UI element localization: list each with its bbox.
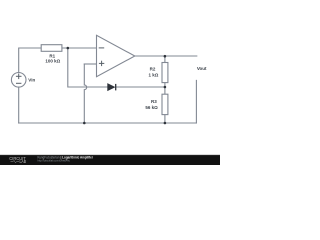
svg-text:Vout: Vout [197,66,207,71]
wire: source top to R1 left [19,48,42,73]
wire: source bottom to rail [18,87,20,123]
resistor R3 body [162,94,168,114]
footer bar [0,155,220,165]
node B junction dot (diode/R2/R3) [164,86,167,89]
voltage source V1 [11,73,26,88]
wire: op-amp non-inverting input [84,63,96,65]
svg-text:R2: R2 [150,66,156,71]
svg-text:Vin: Vin [28,77,35,82]
wire: diode cathode to node B [116,86,165,88]
op-amp plus input symbol [99,61,104,66]
op-amp U1 [97,35,135,76]
node A junction dot [67,47,70,50]
wire: output node down to R2 top [164,56,166,63]
wire: op-amp output to Vout [135,55,197,57]
svg-text:http://circuitlab.com/c/bw64vu: http://circuitlab.com/c/bw64vu [38,159,71,163]
diode D1 cathode bar [115,84,117,91]
resistor R2 body [162,63,168,83]
wire: R2 bottom to node B [164,83,166,87]
resistor R1 body [41,45,62,52]
wire: non-inverting input down to ground rail with hop over feedback wire [84,64,86,123]
svg-text:100 kΩ: 100 kΩ [45,58,60,63]
ground rail junction dot (R3) [164,122,167,125]
wire: feedback branch down from node A [68,48,108,87]
ground rail junction dot (non-inverting input) [83,122,86,125]
diode D1 [108,84,115,91]
op-amp minus input symbol [99,47,105,49]
wire: R1 right to op-amp inverting input [62,47,97,49]
wire: R3 bottom to rail [164,115,166,123]
node output/R2 junction dot [164,55,167,58]
wire: bottom rail [19,122,197,124]
wire: right vertical riser [195,80,197,123]
CircuitLab logo trace squiggle [11,160,20,162]
svg-text:R3: R3 [151,99,157,104]
svg-text:LAB: LAB [20,159,27,164]
svg-text:56 kΩ: 56 kΩ [145,105,158,110]
svg-text:1 kΩ: 1 kΩ [149,72,159,77]
wire: node B to R3 top [164,87,166,94]
